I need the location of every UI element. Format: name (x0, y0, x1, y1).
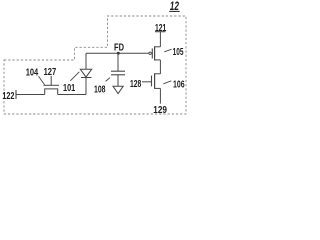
wire 121 to transistor 105 drain (159, 32, 161, 47)
leader 106 (163, 81, 171, 84)
transistor 106 drain lead (155, 73, 161, 75)
transistor 105 channel (154, 46, 156, 60)
transistor 106 channel (154, 73, 156, 89)
svg-text:127: 127 (44, 67, 57, 78)
gate bubble of 105 (149, 52, 151, 54)
svg-text:104: 104 (26, 68, 39, 79)
gate lead 127 (50, 76, 52, 86)
pixel block dashed boundary 12 (4, 16, 186, 114)
transistor 106 source lead (155, 87, 161, 89)
capacitor 108 bottom plate (111, 74, 125, 76)
transistor 104 channel hump (45, 89, 58, 95)
wire FD to capacitor 108 (117, 53, 119, 71)
junction dot FD (117, 52, 120, 55)
transistor 106 gate bar (151, 76, 153, 87)
capacitor 108 top plate (111, 70, 125, 72)
svg-text:108: 108 (94, 85, 106, 96)
photodiode 101 cathode bar (81, 77, 92, 79)
svg-text:106: 106 (173, 79, 185, 90)
transistor 105 drain lead (155, 46, 161, 48)
svg-text:129: 129 (153, 105, 167, 116)
wire 122 to transistor 104 (16, 94, 45, 96)
svg-text:FD: FD (114, 42, 124, 53)
photodiode anode wire (85, 53, 87, 69)
output wire 129 (159, 88, 161, 103)
wire 105 source to 106 drain (159, 60, 161, 74)
photodiode 101 triangle (80, 69, 91, 77)
ground symbol (113, 86, 123, 93)
wire 104 to photodiode (58, 94, 86, 96)
svg-text:128: 128 (130, 79, 142, 90)
svg-text:105: 105 (173, 47, 184, 58)
wire capacitor to ground (117, 75, 119, 86)
leader 108 (106, 78, 110, 82)
svg-text:101: 101 (63, 83, 75, 94)
transistor 104 gate bar (44, 84, 60, 86)
transistor 105 gate bar (151, 49, 153, 59)
leader 104 (39, 76, 45, 85)
gate lead 128 (142, 81, 152, 83)
FD wire (86, 52, 149, 54)
leader 105 (164, 49, 171, 52)
terminal 122 (15, 90, 17, 99)
transistor 105 source lead (155, 59, 161, 61)
wire below photodiode (85, 77, 87, 94)
leader 101 (70, 72, 79, 81)
svg-text:122: 122 (2, 91, 14, 102)
